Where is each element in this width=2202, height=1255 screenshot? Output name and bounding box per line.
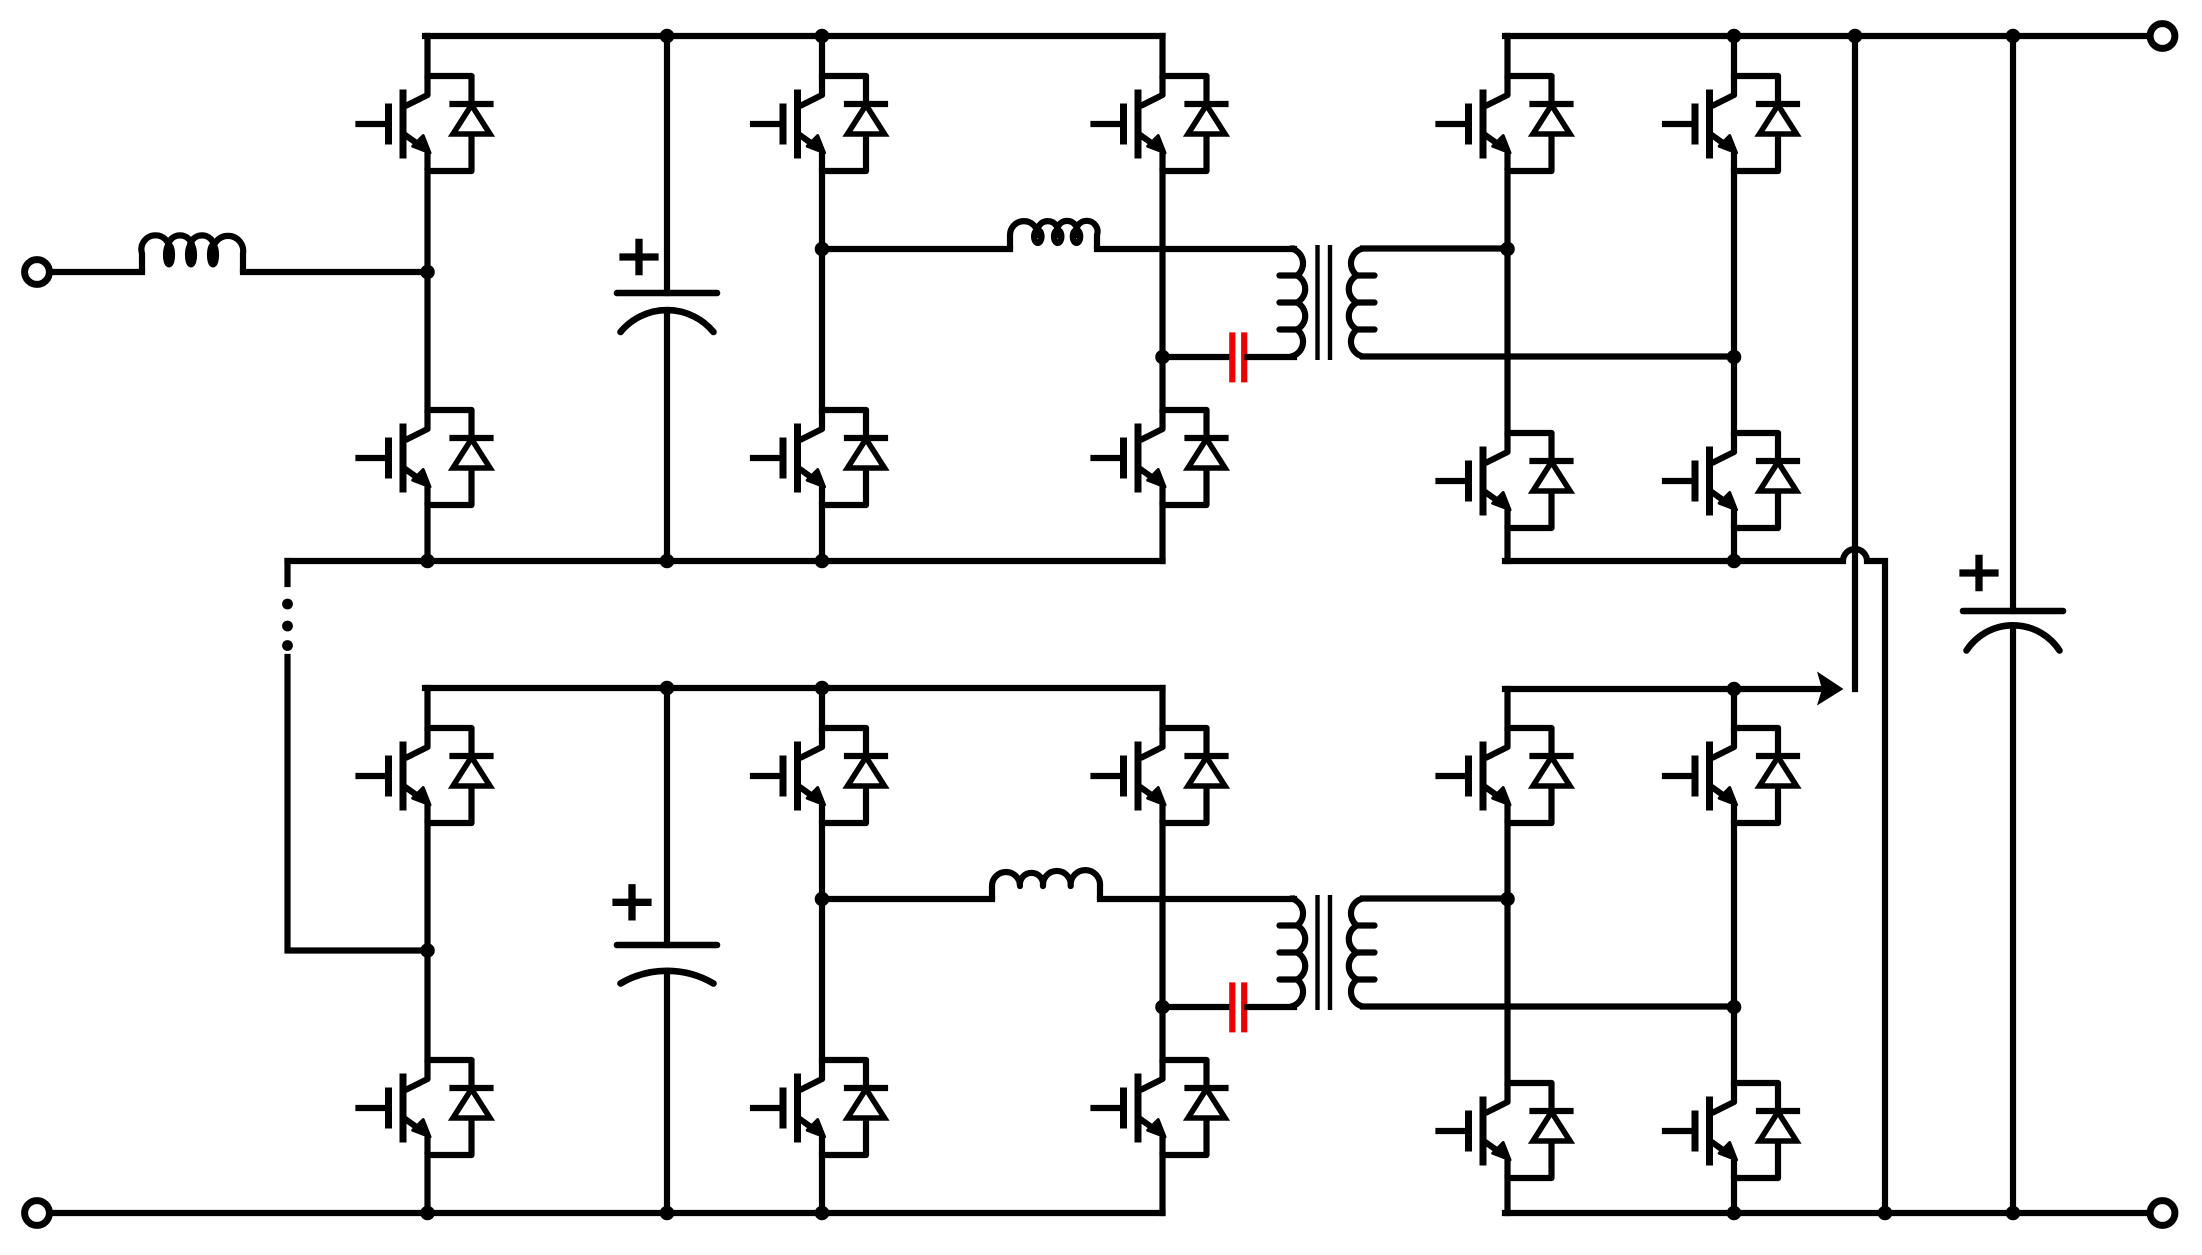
inductor L2 (resonant, top cell) [1010,221,1098,249]
wire resonant inductor to transformer primary top (bottom cell) [1100,896,1294,902]
transformer T1 primary winding (top cell) [1291,249,1305,357]
wire output bridge bottom rail with hop (top cell) [1505,549,1885,1213]
node output bridge right leg bottom (top cell) [1727,554,1742,569]
wire bottom-left leg middle segment [424,823,430,1060]
node H-bridge left leg top (bottom cell) [815,681,830,696]
node dc-link cap bottom (bottom cell) [660,1206,675,1221]
inductor L1 (input filter, top cell) [141,235,243,272]
node output bridge right leg bottom (bottom cell) [1727,1206,1742,1221]
wire H-bridge right leg lower (bottom cell) [1159,1155,1165,1213]
IGBT Q16 (H-bridge right low-side, bottom cell) [1094,1060,1226,1155]
capacitor C2 resonant (red, top cell) [1232,332,1244,382]
terminal input (top left) [25,260,50,285]
wire bottom rail (output side) [1505,1210,2150,1216]
capacitor C1 dc-link (top cell) [664,36,670,293]
IGBT Q2 (input half-bridge low-side, top cell) [359,410,491,505]
inductor L3 (resonant, bottom cell) [992,870,1100,900]
node output bridge right leg top (top cell) [1727,29,1742,44]
IGBT Q5 (H-bridge right high-side, top cell) [1094,76,1226,171]
wire resonant inductor to transformer primary top (top cell) [1097,246,1294,252]
node H-bridge left midpoint (bottom cell) [815,892,830,907]
node dotted-link dot 2 [282,621,293,632]
wire inductor to input node [243,269,428,275]
node line-A top [1848,29,1863,44]
IGBT Q17 (output bridge left high-side, bottom cell) [1439,728,1571,823]
capacitor C5 output filter [2010,36,2016,611]
capacitor C4 resonant (red, bottom cell) [1232,982,1244,1032]
transformer T2 primary winding (bottom cell) [1291,899,1305,1007]
wire dotted-link upper stub [284,561,290,584]
wire resonant cap to transformer primary bottom (top cell) [1248,354,1295,360]
IGBT Q15 (H-bridge right high-side, bottom cell) [1094,728,1226,823]
wire H-bridge left leg middle (top cell) [819,171,825,410]
IGBT Q18 (output bridge left low-side, bottom cell) [1439,1083,1571,1178]
IGBT Q11 (input half-bridge high-side, bottom cell) [359,728,491,823]
wire top rail (output bridge, bottom cell) with arrow shaft [1505,686,1819,692]
wire output bridge right leg lower (bottom cell) [1731,1178,1737,1213]
wire output bridge left leg middle (bottom cell) [1504,823,1510,1083]
wire H-bridge right midpoint to resonant cap (bottom cell) [1163,1004,1230,1010]
wire H-bridge right leg upper (bottom cell) [1159,688,1165,728]
node input midpoint (bottom cell) [420,943,435,958]
node leg-emitter / bottom rail (top cell) [420,554,435,569]
wire T1 secondary top lead [1363,245,1508,251]
wire output bridge left leg upper (top cell) [1504,36,1510,76]
wire output bridge left leg lower (bottom cell) [1504,1178,1510,1213]
terminal output negative (bottom right) [2150,1201,2175,1226]
IGBT Q1 (input half-bridge high-side, top cell) [359,76,491,171]
node H-bridge left midpoint (top cell) [815,242,830,257]
wire bottom-left leg upper segment [424,688,430,728]
IGBT Q8 (output bridge left low-side, top cell) [1439,433,1571,528]
wire T2 secondary top lead [1363,895,1508,901]
node dotted-link dot 3 [282,640,293,651]
wire T2 secondary bottom lead [1363,1003,1734,1009]
IGBT Q12 (input half-bridge low-side, bottom cell) [359,1060,491,1155]
label + polarity C3 [612,884,651,920]
IGBT Q20 (output bridge right low-side, bottom cell) [1665,1083,1797,1178]
terminal input return (bottom left) [25,1201,50,1226]
wire output bridge right leg middle (bottom cell) [1731,823,1737,1083]
transformer T2 secondary winding (bottom cell) [1349,899,1363,1007]
wire H-bridge left leg upper (top cell) [819,36,825,76]
node H-bridge right midpoint (bottom cell) [1155,1000,1170,1015]
label + polarity C5 [1959,555,1998,591]
wire output bridge left leg middle (top cell) [1504,171,1510,433]
node dc-link cap bottom (top cell) [660,554,675,569]
wire bottom-left leg lower segment [424,1155,430,1213]
label + polarity C1 [619,239,658,275]
capacitor C3 dc-link (bottom cell) [664,688,670,945]
wire H-bridge left leg lower (top cell) [819,505,825,561]
wire line A (top rail to series link) [1852,36,1858,689]
transformer T1 secondary winding (top cell) [1349,249,1363,357]
IGBT Q9 (output bridge right high-side, top cell) [1665,76,1797,171]
IGBT Q19 (output bridge right high-side, bottom cell) [1665,728,1797,823]
node output bridge left midpoint (top cell) [1500,242,1515,257]
wire H-bridge right midpoint to resonant cap (top cell) [1163,354,1230,360]
wire H-bridge left leg upper (bottom cell) [819,688,825,728]
wire top rail (bottom cell) [425,685,1163,691]
IGBT Q10 (output bridge right low-side, top cell) [1665,433,1797,528]
wire bottom rail (bottom cell) [50,1210,1163,1216]
wire output bridge right leg upper (bottom cell) [1731,689,1737,728]
wire H-bridge right leg lower (top cell) [1159,505,1165,561]
terminal output positive (top right) [2150,24,2175,49]
node hop line at bottom rail [1878,1206,1893,1221]
wire top rail (top cell) [425,33,1163,39]
node input midpoint (top cell) [420,265,435,280]
wire output bridge left leg lower (top cell) [1504,528,1510,561]
wire H-bridge output to resonant inductor (top cell) [822,246,1010,252]
node output cap top [2006,29,2021,44]
transformer T1 core [1318,245,1331,360]
node output cap bottom [2006,1206,2021,1221]
wire H-bridge right leg middle (top cell) [1159,171,1165,410]
wire bottom rail (top cell) [288,558,1163,564]
wire output bridge right leg middle (top cell) [1731,171,1737,433]
node dc-link cap top (top cell) [660,29,675,44]
node dc-link cap top (bottom cell) [660,681,675,696]
IGBT Q4 (H-bridge left low-side, top cell) [753,410,885,505]
wire H-bridge right leg middle (bottom cell) [1159,823,1165,1060]
wire output bridge right leg lower (top cell) [1731,528,1737,561]
IGBT Q6 (H-bridge right low-side, top cell) [1094,410,1226,505]
transformer T2 core [1318,895,1331,1010]
arrowhead series connection [1817,672,1844,706]
node leg-emitter / bottom rail (bottom cell) [420,1206,435,1221]
wire output bridge right leg upper (top cell) [1731,36,1737,76]
wire input lead [50,269,143,275]
wire top-left leg middle segment [424,171,430,410]
wire top-left leg upper segment [424,36,430,76]
node H-bridge left leg bottom (bottom cell) [815,1206,830,1221]
IGBT Q13 (H-bridge left high-side, bottom cell) [753,728,885,823]
wire top-left leg lower segment [424,505,430,561]
wire resonant cap to transformer primary bottom (bottom cell) [1248,1004,1295,1010]
wire output bridge left leg upper (bottom cell) [1504,689,1510,728]
node H-bridge left leg top (top cell) [815,29,830,44]
wire H-bridge output to resonant inductor (bottom cell) [822,896,992,902]
IGBT Q14 (H-bridge left low-side, bottom cell) [753,1060,885,1155]
wire dotted-link lower segment [288,657,428,951]
node output bridge right leg top (bottom cell) [1727,682,1742,697]
node dotted-link dot 1 [282,599,293,610]
wire T1 secondary bottom lead [1363,353,1734,359]
node H-bridge right midpoint (top cell) [1155,350,1170,365]
node output bridge left midpoint (bottom cell) [1500,892,1515,907]
IGBT Q3 (H-bridge left high-side, top cell) [753,76,885,171]
wire H-bridge left leg lower (bottom cell) [819,1155,825,1213]
wire top rail (output bridge, top cell) [1505,33,2150,39]
node output bridge right midpoint (top cell) [1727,350,1742,365]
wire H-bridge left leg middle (bottom cell) [819,823,825,1060]
node H-bridge left leg bottom (top cell) [815,554,830,569]
node output bridge right midpoint (bottom cell) [1727,1000,1742,1015]
wire H-bridge right leg upper (top cell) [1159,36,1165,76]
IGBT Q7 (output bridge left high-side, top cell) [1439,76,1571,171]
